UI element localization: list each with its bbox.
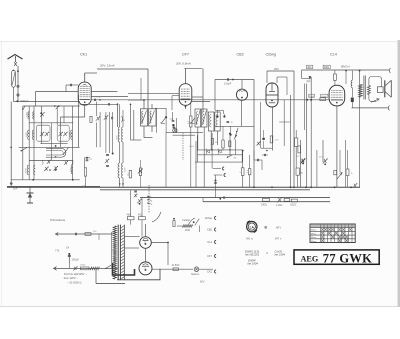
svg-text:100: 100 <box>170 119 173 121</box>
svg-text:20V, 13mA: 20V, 13mA <box>100 64 115 68</box>
svg-text:8000: 8000 <box>26 167 28 173</box>
svg-text:Primärkreis: Primärkreis <box>50 218 66 222</box>
svg-text:100pF: 100pF <box>96 97 102 99</box>
svg-text:50kΩ: 50kΩ <box>324 67 330 69</box>
svg-text:0,1nF: 0,1nF <box>189 146 195 148</box>
svg-text:CF7: CF7 <box>207 254 212 258</box>
svg-text:500pF: 500pF <box>21 99 29 103</box>
svg-text:Feldsp.: Feldsp. <box>182 219 191 222</box>
svg-text:1940: 1940 <box>185 229 191 232</box>
svg-text:250µF: 250µF <box>72 258 80 262</box>
svg-text:CB2: CB2 <box>237 52 244 56</box>
svg-text:20V, 0,8mA: 20V, 0,8mA <box>176 62 191 66</box>
svg-text:5000: 5000 <box>70 166 72 172</box>
svg-text:3000: 3000 <box>26 131 28 137</box>
svg-text:CB2: CB2 <box>207 228 213 232</box>
svg-text:240Ω: 240Ω <box>261 204 267 207</box>
svg-text:77 GWK: 77 GWK <box>323 252 372 266</box>
svg-text:LA: LA <box>250 225 255 229</box>
svg-text:CF7: CF7 <box>182 52 189 56</box>
svg-text:Wxxx: Wxxx <box>311 230 317 232</box>
svg-text:1,2kΩ: 1,2kΩ <box>276 204 283 207</box>
svg-text:CK1: CK1 <box>207 270 213 274</box>
svg-text:77k: 77k <box>55 249 60 253</box>
svg-text:Cl2wg: Cl2wg <box>205 216 213 220</box>
svg-text:1M: 1M <box>215 142 218 144</box>
svg-text:CK1: CK1 <box>80 52 87 56</box>
svg-text:Wxxx: Wxxx <box>311 241 317 243</box>
svg-text:8µF: 8µF <box>307 81 312 83</box>
svg-text:60V: 60V <box>200 281 205 284</box>
svg-text:98V/0,4: 98V/0,4 <box>341 66 350 69</box>
svg-text:CL4: CL4 <box>330 52 337 56</box>
svg-text:~ 10-2000 Ω: ~ 10-2000 Ω <box>67 280 81 284</box>
svg-text:10nF: 10nF <box>309 96 314 98</box>
svg-text:Wxxx: Wxxx <box>311 233 317 235</box>
svg-text:AF1: AF1 <box>276 226 281 230</box>
svg-text:20nF: 20nF <box>319 157 324 159</box>
svg-text:2: 2 <box>265 251 268 255</box>
svg-text:bzw. 220V ~: bzw. 220V ~ <box>64 276 79 280</box>
svg-text:250Ω: 250Ω <box>80 265 86 267</box>
svg-text:4x 50V: 4x 50V <box>172 264 180 267</box>
svg-text:25V: 25V <box>274 67 279 71</box>
svg-text:0,5: 0,5 <box>299 172 303 175</box>
svg-text:847 n: 847 n <box>275 238 282 241</box>
svg-text:CL4: CL4 <box>207 240 212 244</box>
svg-text:3000: 3000 <box>27 111 29 117</box>
svg-text:AEG: AEG <box>301 254 319 263</box>
svg-text:bei 1904: bei 1904 <box>248 262 259 266</box>
svg-text:1000: 1000 <box>70 131 72 137</box>
svg-text:Wxxx: Wxxx <box>311 237 317 239</box>
svg-text:Skalenl.: Skalenl. <box>191 273 200 276</box>
svg-text:100Ω: 100Ω <box>290 204 296 207</box>
svg-text:841 m: 841 m <box>246 238 253 241</box>
svg-text:bei 2304: bei 2304 <box>275 253 286 257</box>
svg-text:Cl2wg: Cl2wg <box>266 52 276 56</box>
svg-text:100pF: 100pF <box>224 82 232 86</box>
svg-text:4kΩ: 4kΩ <box>307 67 311 69</box>
svg-text:bei NE1201: bei NE1201 <box>245 253 260 257</box>
svg-text:13,6 bis 110/125V ~: 13,6 bis 110/125V ~ <box>64 272 87 276</box>
svg-text:7M: 7M <box>233 158 236 160</box>
